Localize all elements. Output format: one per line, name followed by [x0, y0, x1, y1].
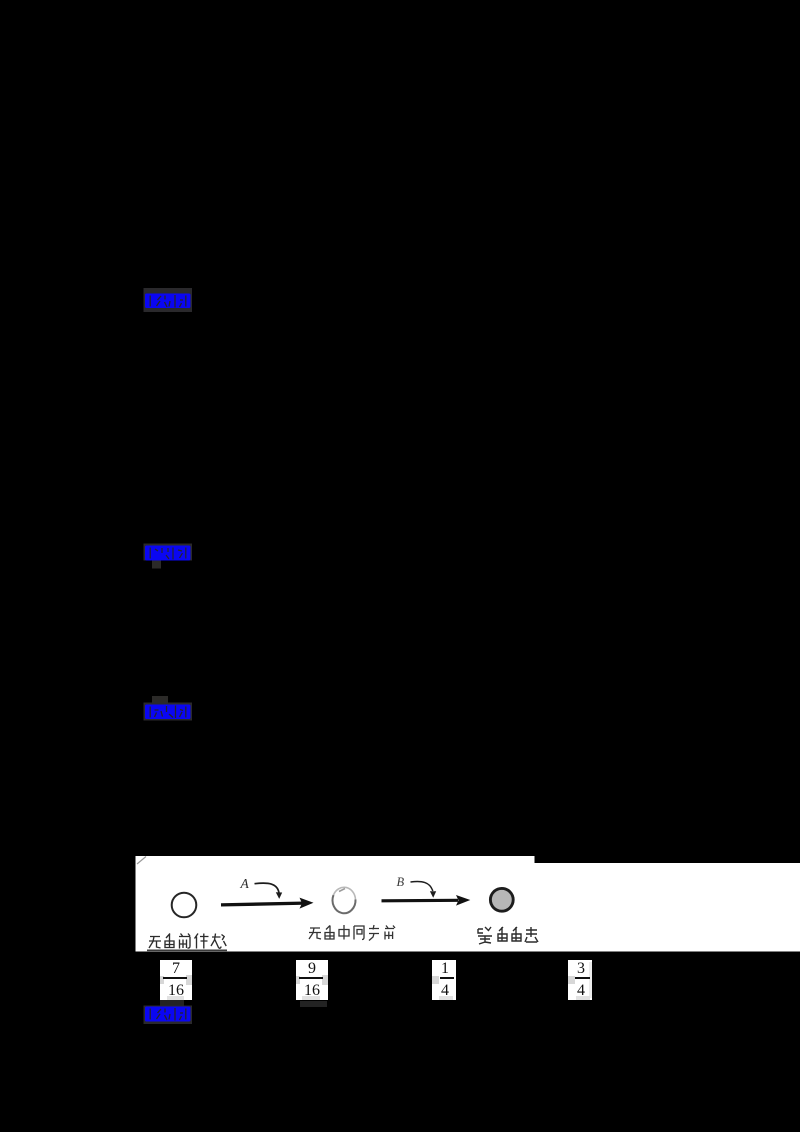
arrow 2 shaft	[382, 899, 459, 903]
blue text	[145, 705, 191, 720]
equation box 7/16	[160, 960, 192, 1001]
marker 1 highlight box (【分析】)	[140, 284, 200, 318]
shadow nub below 7/16	[160, 1000, 184, 1006]
corner scan artifact	[137, 857, 146, 865]
figure image: white scan with reaction pathway	[130, 850, 800, 956]
marker 4 highlight box (【分析】)	[140, 996, 200, 1034]
white background of figure	[136, 856, 535, 952]
white strip to right edge	[533, 863, 800, 952]
blue text 【详解】	[145, 546, 191, 561]
marker 3 highlight box (【点睛】)	[140, 692, 200, 730]
blue text	[145, 1007, 191, 1022]
ascender nub above	[152, 696, 168, 704]
circle: purple pigment (filled)	[490, 888, 513, 911]
shadow nub below 9/16	[300, 1001, 327, 1007]
circle: colorless precursor	[172, 893, 197, 918]
descender nub below	[152, 561, 161, 569]
label 无色前体物	[149, 934, 226, 949]
equation box 1/4	[432, 960, 456, 1001]
leader arrow from B	[411, 881, 433, 891]
svg-text:A: A	[240, 876, 250, 891]
equation box 9/16	[296, 960, 328, 1001]
svg-text:B: B	[397, 875, 405, 889]
marker 2 highlight box (【详解】)	[140, 536, 200, 574]
arrow 1 head	[300, 898, 314, 909]
arrow 1 shaft	[221, 903, 304, 905]
label 紫色色素	[478, 927, 538, 944]
label 无色中间产物	[309, 925, 395, 941]
circle: colorless intermediate (sketchy pencil)	[333, 895, 356, 913]
blue text 【分析】	[145, 294, 191, 309]
equation box 3/4	[568, 960, 592, 1001]
arrow 2 head	[456, 895, 470, 906]
underline under 无色前体物	[147, 949, 227, 951]
leader arrow from A	[255, 883, 280, 893]
